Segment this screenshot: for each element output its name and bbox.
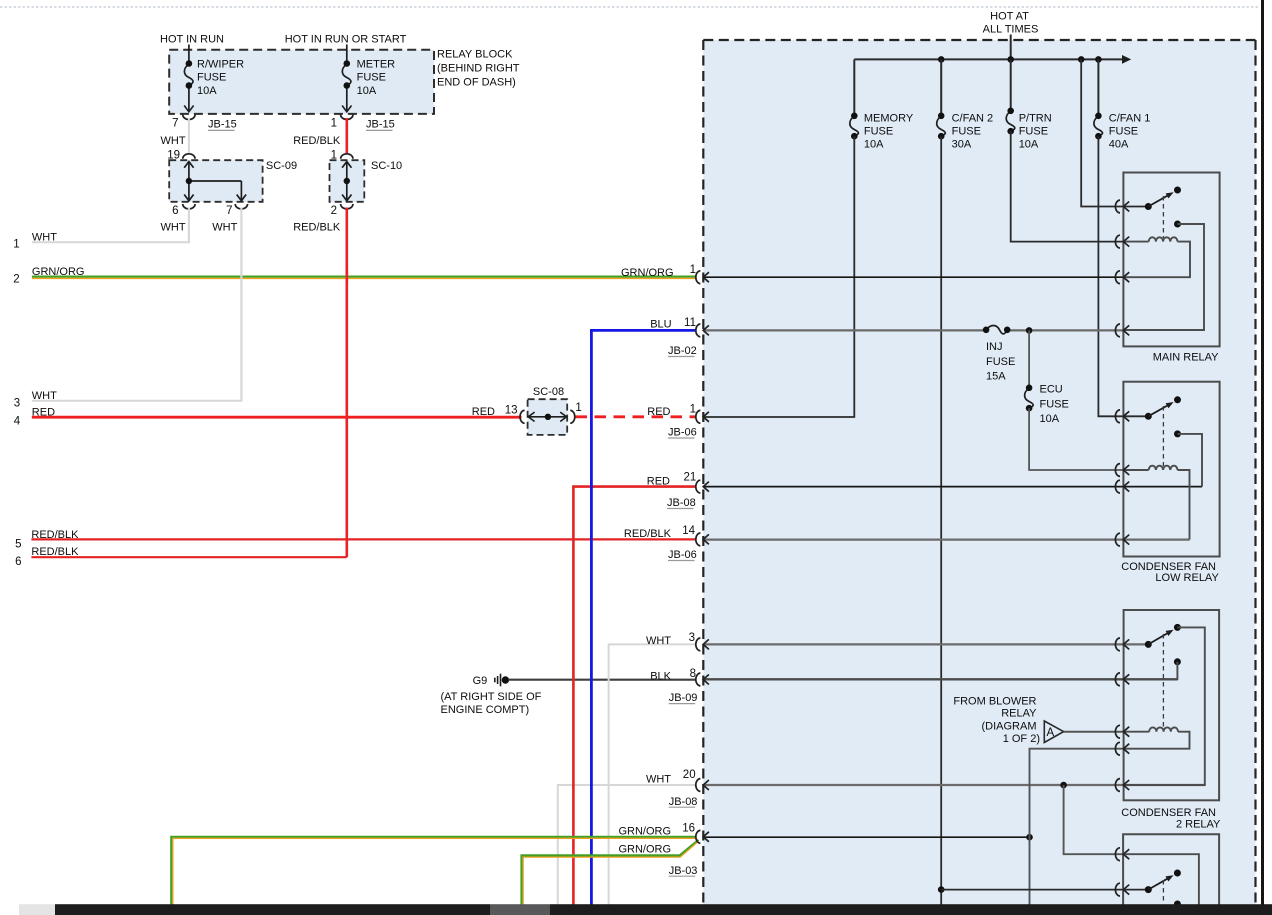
bottom relay switch common contact xyxy=(1145,886,1152,893)
connector SC-10 pin 2 cup xyxy=(341,204,353,209)
wire WHT vertical to bottom (from pin 3) xyxy=(609,644,697,905)
svg-text:JB-08: JB-08 xyxy=(669,796,698,808)
connector JB pin RED 21 xyxy=(696,480,709,493)
connector JB pin RED/BLK 14 xyxy=(696,533,709,546)
fuse C/FAN 1 40A xyxy=(1094,116,1103,136)
svg-text:RELAY: RELAY xyxy=(1001,708,1037,720)
svg-text:FUSE: FUSE xyxy=(197,71,226,83)
main relay pin 4 connector xyxy=(1115,324,1129,337)
bottom relay pin 2 connector xyxy=(1115,883,1129,896)
wire main relay switch feed xyxy=(1081,59,1147,206)
connector JB pin WHT 20 xyxy=(696,779,709,792)
svg-text:CONDENSER FAN: CONDENSER FAN xyxy=(1121,807,1216,819)
relay CONDENSER FAN 2 RELAY box xyxy=(1124,610,1220,800)
connector JB pin WHT 3 xyxy=(696,638,709,651)
svg-text:ECU: ECU xyxy=(1040,384,1063,396)
svg-text:END OF DASH): END OF DASH) xyxy=(437,77,516,89)
connector JB pin GRN/ORG 1 xyxy=(696,271,709,284)
node bus junction P/TRN xyxy=(1007,56,1014,63)
svg-text:10A: 10A xyxy=(197,85,217,97)
svg-text:21: 21 xyxy=(684,471,697,483)
wire HOT AT ALL TIMES feed xyxy=(1010,35,1012,60)
svg-text:(AT RIGHT SIDE OF: (AT RIGHT SIDE OF xyxy=(441,691,542,703)
fuse R/WIPER 10A xyxy=(184,12,193,112)
svg-text:HOT IN RUN: HOT IN RUN xyxy=(160,34,224,46)
low relay switch common contact xyxy=(1145,413,1152,420)
fan2 relay pin5 wire to NO contact xyxy=(1125,627,1205,785)
wire WHT JB-15/7 to SC-09/19 xyxy=(188,118,190,154)
fuse ECU 10A xyxy=(1025,388,1034,408)
svg-text:WHT: WHT xyxy=(32,390,57,402)
main relay switch arm xyxy=(1148,194,1170,206)
svg-text:JB-15: JB-15 xyxy=(366,119,395,131)
right edge vertical bar xyxy=(1261,0,1264,915)
svg-text:16: 16 xyxy=(682,823,695,835)
svg-text:3: 3 xyxy=(14,398,20,410)
svg-text:4: 4 xyxy=(14,415,21,427)
connector SC-09 pin 7 cup xyxy=(235,204,247,209)
svg-text:6: 6 xyxy=(172,205,178,217)
svg-text:10A: 10A xyxy=(864,138,884,150)
wire WHT vertical to bottom (from pin 20) xyxy=(558,785,697,905)
svg-text:JB-06: JB-06 xyxy=(668,549,697,561)
bottom bar gray thumb xyxy=(490,904,550,915)
main relay output contact xyxy=(1174,221,1181,228)
svg-text:GRN/ORG: GRN/ORG xyxy=(618,825,671,837)
main relay switch common contact xyxy=(1145,203,1152,210)
connector JB pin BLU 11 xyxy=(696,324,709,337)
relay MAIN RELAY box xyxy=(1123,173,1219,347)
svg-text:JB-06: JB-06 xyxy=(668,427,697,439)
low relay pin 1 connector xyxy=(1115,410,1129,423)
low relay armature dashed link xyxy=(1162,406,1164,466)
svg-text:20: 20 xyxy=(683,769,696,781)
svg-text:BLU: BLU xyxy=(650,318,671,330)
relay block (right) dashed border xyxy=(703,40,1255,905)
svg-text:JB-15: JB-15 xyxy=(208,119,237,131)
low relay pin 4 connector xyxy=(1115,533,1129,546)
relay block JB-15 fill xyxy=(169,50,434,114)
svg-text:FUSE: FUSE xyxy=(1019,126,1048,138)
bottom bar dark left xyxy=(55,904,490,915)
bottom scrollbar track light xyxy=(19,904,55,915)
svg-text:P/TRN: P/TRN xyxy=(1019,113,1052,125)
connector JB pin GRN/ORG 16 xyxy=(696,830,709,843)
off-page arrow A xyxy=(1044,721,1063,743)
bottom relay armature dashed link xyxy=(1162,880,1164,903)
wire pin20 junction down to bottom relay xyxy=(1064,785,1123,854)
svg-text:HOT AT: HOT AT xyxy=(990,11,1029,23)
main relay pin 1 connector xyxy=(1115,200,1129,213)
fan2 relay coil xyxy=(1125,731,1150,733)
main relay coil return wire to pin 3 xyxy=(1125,242,1191,278)
svg-text:ENGINE COMPT): ENGINE COMPT) xyxy=(441,704,530,716)
wire 3 WHT xyxy=(32,208,242,401)
bottom bar dark right xyxy=(550,904,1272,915)
svg-text:1: 1 xyxy=(575,402,581,414)
svg-text:FUSE: FUSE xyxy=(986,356,1015,368)
svg-text:2 RELAY: 2 RELAY xyxy=(1176,819,1221,831)
svg-text:30A: 30A xyxy=(952,138,972,150)
fuse METER 10A xyxy=(342,45,351,112)
wire RED dashed SC-08 to JB-06 xyxy=(576,415,696,418)
wire GRN/ORG (pin 16) xyxy=(171,837,696,905)
wire C/FAN2 fuse long drop to bottom relay xyxy=(940,136,942,905)
node pin20 line junction xyxy=(1060,782,1067,789)
svg-text:(DIAGRAM: (DIAGRAM xyxy=(982,720,1037,732)
svg-text:WHT: WHT xyxy=(161,135,186,147)
svg-text:WHT: WHT xyxy=(646,773,671,785)
fan2 relay switch common contact xyxy=(1145,641,1152,648)
node INJ output junction xyxy=(1026,327,1033,334)
node SC-10 junction xyxy=(344,178,350,184)
main relay armature dashed link xyxy=(1162,196,1164,238)
top hairline rule xyxy=(0,6,1259,8)
wire 4 RED xyxy=(32,416,522,419)
bottom relay pin 1 connector xyxy=(1115,848,1129,861)
fan2 relay pin 4 connector xyxy=(1115,742,1129,755)
fan2 relay NC contact xyxy=(1174,658,1181,665)
svg-text:RED/BLK: RED/BLK xyxy=(31,546,79,558)
svg-text:SC-10: SC-10 xyxy=(371,160,402,172)
low relay pin 2 connector xyxy=(1115,464,1129,477)
svg-text:GRN/ORG: GRN/ORG xyxy=(32,266,85,278)
svg-text:WHT: WHT xyxy=(212,222,237,234)
svg-text:FUSE: FUSE xyxy=(952,126,981,138)
wire 1 WHT xyxy=(32,208,189,242)
wire 2 GRN/ORG xyxy=(32,276,697,278)
svg-text:1 OF 2): 1 OF 2) xyxy=(1003,733,1040,745)
svg-text:WHT: WHT xyxy=(161,222,186,234)
connector SC-09 pin 19 arch xyxy=(183,154,195,159)
svg-text:8: 8 xyxy=(690,668,696,680)
wire BLU (pin 11) xyxy=(591,330,696,905)
svg-text:RED/BLK: RED/BLK xyxy=(293,222,341,234)
connector SC-08 right arc xyxy=(570,410,575,423)
svg-text:14: 14 xyxy=(682,525,695,537)
svg-text:MAIN RELAY: MAIN RELAY xyxy=(1153,351,1219,363)
svg-text:METER: METER xyxy=(357,59,396,71)
svg-text:10A: 10A xyxy=(357,85,377,97)
bottom relay output contact xyxy=(1174,901,1181,908)
svg-text:RED: RED xyxy=(647,406,670,418)
wire ECU fuse to condenser fan low relay coil xyxy=(1029,408,1122,470)
wire RED vertical to bottom (from pin 21) xyxy=(573,487,696,905)
svg-text:10A: 10A xyxy=(1040,413,1060,425)
wire RED/BLK JB-15/1 to SC-10/1 xyxy=(345,118,348,154)
fan2 relay pin 1 connector xyxy=(1115,638,1129,651)
svg-text:FROM BLOWER: FROM BLOWER xyxy=(953,696,1036,708)
wire 6 RED/BLK xyxy=(31,556,346,558)
svg-text:C/FAN 2: C/FAN 2 xyxy=(952,113,994,125)
svg-text:7: 7 xyxy=(226,205,232,217)
relay block JB-15 dashed border xyxy=(169,50,434,114)
node bus junction C/FAN1 xyxy=(1095,56,1102,63)
svg-text:GRN/ORG: GRN/ORG xyxy=(618,844,671,856)
fan2 relay pin 2 connector xyxy=(1115,673,1129,686)
main relay pin 2 connector xyxy=(1115,235,1129,248)
fan2 relay switch NO contact xyxy=(1174,624,1181,631)
connector JB-15 pin 1 cup xyxy=(341,115,353,120)
svg-text:RED/BLK: RED/BLK xyxy=(624,528,672,540)
splice SC-09 box xyxy=(169,160,262,202)
svg-text:RED: RED xyxy=(32,406,55,418)
svg-text:JB-03: JB-03 xyxy=(669,865,698,877)
svg-text:SC-08: SC-08 xyxy=(533,386,564,398)
connector SC-09 pin 6 cup xyxy=(183,204,195,209)
svg-text:1: 1 xyxy=(13,238,19,250)
svg-text:7: 7 xyxy=(172,118,178,130)
svg-text:1: 1 xyxy=(331,118,337,130)
splice SC-08 box xyxy=(528,399,568,435)
fan2 relay pin 3 connector xyxy=(1115,725,1129,738)
low relay pin 3 connector xyxy=(1115,480,1129,493)
svg-text:HOT IN RUN OR START: HOT IN RUN OR START xyxy=(285,34,407,46)
node SC-08 center xyxy=(545,414,551,420)
wire power bus xyxy=(854,58,1124,60)
wire 5 RED/BLK xyxy=(31,538,696,540)
wire RED inner (pin 21 to condenser fan low relay) xyxy=(704,486,1202,488)
SC-10 internal wiring xyxy=(342,162,351,201)
main relay output wire to pin 4 xyxy=(1125,224,1205,330)
fuse MEMORY 10A xyxy=(850,116,859,136)
node bus junction C/FAN2 xyxy=(938,56,945,63)
wire A arrow to fan2 relay coil xyxy=(1064,731,1123,733)
wire MEMORY fuse drop xyxy=(853,59,855,116)
bottom relay pin 1 inner wire xyxy=(1125,854,1199,905)
svg-text:1: 1 xyxy=(690,404,696,416)
low relay coil xyxy=(1125,469,1149,471)
svg-text:FUSE: FUSE xyxy=(1109,126,1138,138)
svg-text:R/WIPER: R/WIPER xyxy=(197,59,244,71)
svg-text:LOW RELAY: LOW RELAY xyxy=(1155,572,1219,584)
connector JB-15 pin 7 cup xyxy=(183,115,195,120)
svg-text:RELAY BLOCK: RELAY BLOCK xyxy=(437,49,513,61)
svg-text:3: 3 xyxy=(689,632,695,644)
svg-text:RED: RED xyxy=(647,476,670,488)
svg-text:40A: 40A xyxy=(1109,138,1129,150)
svg-text:JB-02: JB-02 xyxy=(668,345,697,357)
relay bottom (partial) box xyxy=(1123,834,1219,905)
wire BLK inner (pin 8 to condenser fan 2 relay) xyxy=(704,678,1177,680)
svg-text:JB-09: JB-09 xyxy=(669,692,698,704)
wire BLU inner (pin 11 to INJ fuse to main relay) xyxy=(704,329,986,331)
fuse P/TRN 10A xyxy=(1006,111,1015,131)
wire RED/BLK SC-10/2 down to wire 6 xyxy=(345,208,348,558)
fan2 relay switch arm xyxy=(1148,632,1170,645)
wire P/TRN fuse to main relay coil xyxy=(1011,131,1123,241)
low relay output contact xyxy=(1174,430,1181,437)
connector SC-08 left arc xyxy=(520,410,525,423)
svg-text:FUSE: FUSE xyxy=(357,71,386,83)
bottom relay switch arm xyxy=(1148,877,1170,889)
svg-text:11: 11 xyxy=(684,317,696,329)
wire C/FAN2 drop to bottom relay switch xyxy=(941,889,1147,891)
node SC-09 junction xyxy=(186,178,192,184)
main relay coil xyxy=(1125,241,1149,243)
svg-text:ALL TIMES: ALL TIMES xyxy=(983,24,1039,36)
wire GRN/ORG second to pin 16 xyxy=(522,840,699,905)
fuse C/FAN 2 30A xyxy=(937,116,946,136)
main relay pin 3 connector xyxy=(1115,271,1129,284)
node bus junction main relay feed xyxy=(1078,56,1085,63)
low relay output wire to pin 3 xyxy=(1178,434,1203,487)
main relay switch NO contact xyxy=(1174,187,1181,194)
connector JB pin BLK 8 xyxy=(696,673,709,686)
SC-08 internal wire and arrows xyxy=(528,412,566,421)
low relay coil return wire to pin 4 xyxy=(1178,470,1190,540)
svg-text:G9: G9 xyxy=(473,675,488,687)
svg-text:INJ: INJ xyxy=(986,341,1003,353)
svg-text:10A: 10A xyxy=(1019,138,1039,150)
svg-text:JB-08: JB-08 xyxy=(667,497,696,509)
wire P/TRN fuse drop xyxy=(1010,59,1012,111)
svg-text:BLK: BLK xyxy=(650,670,671,682)
wire MEMORY fuse to JB-06 pin 1 elbow xyxy=(704,136,854,417)
svg-text:2: 2 xyxy=(331,205,337,217)
fuse INJ 15A xyxy=(986,326,1007,334)
splice SC-10 box xyxy=(330,160,365,202)
connector JB pin RED 1 xyxy=(696,410,709,423)
svg-text:RED/BLK: RED/BLK xyxy=(293,135,341,147)
SC-09 internal wiring xyxy=(184,162,246,201)
svg-text:SC-09: SC-09 xyxy=(266,160,297,172)
fan2 relay armature dashed link xyxy=(1162,634,1164,728)
svg-text:WHT: WHT xyxy=(646,635,671,647)
wire GRN/ORG inner (pin 16 to fan2 coil return) xyxy=(704,836,1030,838)
wire fan2 pin 4 to GRN/ORG 16 junction xyxy=(1030,749,1123,905)
connector SC-10 pin 1 arch xyxy=(341,154,353,159)
svg-text:15A: 15A xyxy=(986,371,1006,383)
wire GRN/ORG inner (pin 1 to main relay) xyxy=(704,276,1123,278)
svg-text:GRN/ORG: GRN/ORG xyxy=(621,267,674,279)
svg-text:RED/BLK: RED/BLK xyxy=(31,529,79,541)
wire WHT inner (pin 20 to condenser fan 2 relay pin 5) xyxy=(704,784,1205,786)
svg-text:1: 1 xyxy=(690,264,696,276)
node pin16 junction xyxy=(1026,834,1033,841)
svg-text:2: 2 xyxy=(13,273,19,285)
fan2 relay pin 5 connector xyxy=(1115,779,1129,792)
wire BLK G9 to JB-09/8 xyxy=(509,679,697,681)
fan2 relay pin2 wire up to NC contact xyxy=(1125,662,1178,680)
wire WHT SC-09/7 down xyxy=(240,208,242,401)
node C/FAN2 drop junction at bottom relay xyxy=(938,886,945,893)
bottom relay switch NO contact xyxy=(1174,870,1181,877)
wire C/FAN1 fuse to condenser fan low relay xyxy=(1098,136,1147,416)
svg-text:6: 6 xyxy=(15,556,21,568)
svg-text:FUSE: FUSE xyxy=(1040,398,1069,410)
svg-text:13: 13 xyxy=(505,405,518,417)
low relay switch arm xyxy=(1148,404,1170,416)
svg-text:A: A xyxy=(1047,727,1055,739)
wire C/FAN1 fuse drop xyxy=(1097,59,1099,116)
fan2 relay coil return wire to pin 4 xyxy=(1125,732,1190,749)
svg-text:WHT: WHT xyxy=(32,232,57,244)
wire WHT SC-09/6 down xyxy=(188,208,190,243)
svg-text:FUSE: FUSE xyxy=(864,126,893,138)
low relay switch NO contact xyxy=(1174,396,1181,403)
wire C/FAN2 fuse drop xyxy=(940,59,942,116)
wire INJ junction to ECU fuse xyxy=(1028,330,1030,388)
svg-text:C/FAN 1: C/FAN 1 xyxy=(1109,113,1151,125)
relay CONDENSER FAN LOW RELAY box xyxy=(1123,382,1219,557)
svg-text:5: 5 xyxy=(15,539,21,551)
svg-text:MEMORY: MEMORY xyxy=(864,113,914,125)
wire RED/BLK inner (pin 14 to condenser fan low relay) xyxy=(704,538,1190,540)
bus arrowhead xyxy=(1122,55,1131,64)
svg-text:RED: RED xyxy=(472,406,495,418)
relay block (right) fill xyxy=(703,40,1255,905)
wire crossing overlays xyxy=(240,271,242,283)
svg-text:(BEHIND RIGHT: (BEHIND RIGHT xyxy=(437,63,520,75)
wire WHT inner (pin 3 to condenser fan 2 relay) xyxy=(704,643,1148,645)
